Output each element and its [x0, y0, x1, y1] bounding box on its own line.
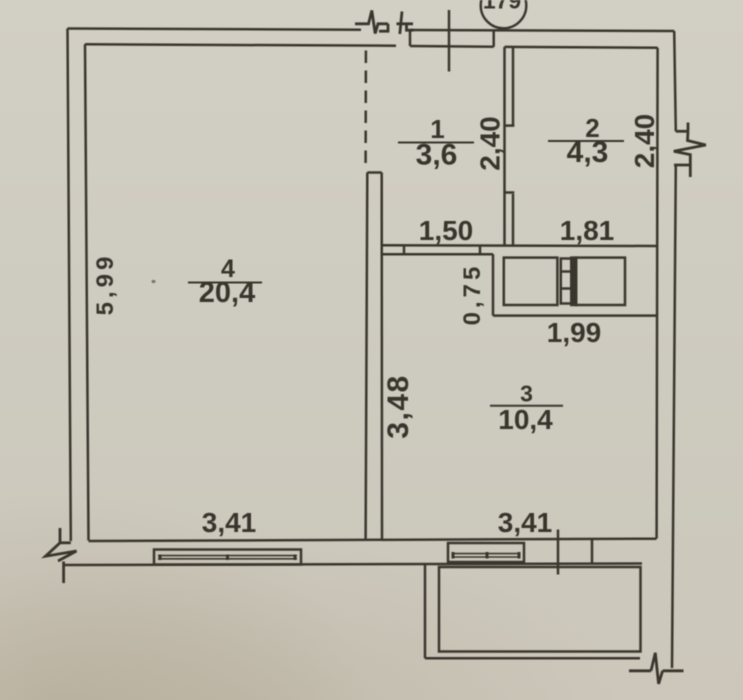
svg-text:1,50: 1,50	[419, 215, 474, 246]
svg-text:0,75: 0,75	[459, 263, 486, 326]
svg-text:3,6: 3,6	[416, 139, 458, 172]
svg-text:2,40: 2,40	[629, 114, 660, 169]
svg-text:4,3: 4,3	[567, 136, 609, 169]
svg-text:5,99: 5,99	[92, 253, 119, 316]
svg-text:1,81: 1,81	[560, 215, 615, 246]
svg-text:3: 3	[520, 381, 533, 407]
svg-text:3,41: 3,41	[202, 507, 257, 538]
svg-text:179: 179	[483, 0, 521, 14]
svg-text:10,4: 10,4	[498, 404, 553, 435]
svg-text:1,99: 1,99	[547, 317, 602, 348]
svg-text:2,40: 2,40	[475, 116, 506, 171]
svg-text:3,48: 3,48	[382, 374, 415, 438]
svg-text:20,4: 20,4	[199, 277, 255, 309]
svg-text:3,41: 3,41	[498, 507, 553, 538]
